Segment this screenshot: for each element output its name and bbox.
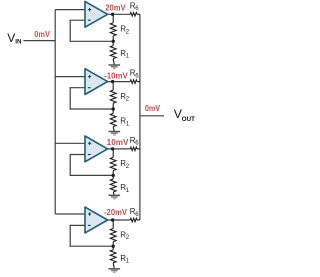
op-amp U2 <box>85 69 108 95</box>
node output of U3 <box>111 147 114 150</box>
input net VIN: left bus <box>54 10 56 214</box>
resistor R6 (stage 4 summing resistor) <box>130 218 140 222</box>
wire output of U1 <box>108 13 131 15</box>
label R2 (stage 2) <box>120 92 130 103</box>
label R6 (stage 1) <box>130 1 140 12</box>
resistor R6 (stage 2 summing resistor) <box>130 80 140 84</box>
resistor R2 (stage 3) <box>110 149 116 176</box>
value label -10mV <box>104 72 128 81</box>
svg-text:1: 1 <box>126 121 130 127</box>
resistor R2 (stage 4) <box>110 220 116 246</box>
svg-text:OUT: OUT <box>182 116 195 123</box>
label VIN <box>7 31 22 46</box>
ground (stage 3) <box>109 195 121 198</box>
svg-text:V: V <box>7 31 15 45</box>
node R1/R2 junction (stage 2) <box>112 107 115 110</box>
ground (stage 2) <box>109 132 121 135</box>
value label 10mV <box>107 138 129 147</box>
value label 0mV at output <box>145 104 161 113</box>
svg-text:0mV: 0mV <box>145 104 161 113</box>
wire output of U3 <box>108 148 131 150</box>
svg-text:-20mV: -20mV <box>104 208 128 217</box>
wire VIN to left bus <box>24 40 56 42</box>
node R1/R2 junction (stage 1) <box>112 40 115 43</box>
node R1/R2 junction (stage 3) <box>112 174 115 177</box>
label R6 (stage 2) <box>130 69 140 80</box>
svg-text:6: 6 <box>135 141 139 147</box>
op-amp U1 <box>85 1 108 27</box>
wire bus to + input of op-amp U3 <box>55 142 85 144</box>
svg-text:2: 2 <box>126 97 130 103</box>
svg-text:2: 2 <box>126 235 130 241</box>
resistor R1 (stage 2) <box>110 109 116 132</box>
wire bus to + input of op-amp U2 <box>55 76 85 78</box>
label R1 (stage 2) <box>120 117 130 128</box>
resistor R6 (stage 3 summing resistor) <box>130 147 140 151</box>
svg-text:1: 1 <box>126 54 130 60</box>
svg-text:6: 6 <box>135 73 139 79</box>
wire output of U2 <box>108 81 131 83</box>
node output of U4 <box>111 218 114 221</box>
label R6 (stage 4) <box>130 207 140 218</box>
resistor R1 (stage 1) <box>110 41 116 65</box>
resistor R6 (stage 1 summing resistor) <box>130 13 140 17</box>
value label 20mV <box>105 3 126 12</box>
resistor R2 (stage 2) <box>110 82 116 109</box>
output net: right bus <box>139 14 141 220</box>
svg-text:IN: IN <box>15 39 22 46</box>
label VOUT <box>174 107 195 123</box>
svg-text:0mV: 0mV <box>34 30 50 39</box>
label R1 (stage 1) <box>120 49 130 60</box>
svg-text:6: 6 <box>135 6 139 12</box>
op-amp U3 <box>85 136 108 162</box>
label R6 (stage 3) <box>130 136 140 147</box>
label R2 (stage 3) <box>120 159 130 170</box>
label R2 (stage 1) <box>120 25 130 36</box>
feedback wire from - input of U2 to R1/R2 junction <box>70 88 113 109</box>
resistor R1 (stage 3) <box>110 175 116 195</box>
svg-text:6: 6 <box>135 212 139 218</box>
svg-text:2: 2 <box>126 164 130 170</box>
svg-text:1: 1 <box>126 188 130 194</box>
svg-text:20mV: 20mV <box>105 3 126 12</box>
svg-text:10mV: 10mV <box>107 138 129 147</box>
feedback wire from - input of U3 to R1/R2 junction <box>70 155 113 176</box>
label R1 (stage 4) <box>120 254 130 265</box>
value label 0mV at input <box>34 30 50 39</box>
node output of U2 <box>111 80 114 83</box>
resistor R1 (stage 4) <box>110 246 116 269</box>
ground (stage 1) <box>109 65 121 68</box>
svg-text:2: 2 <box>126 29 130 35</box>
label R1 (stage 3) <box>120 183 130 194</box>
wire bus to + input of op-amp U1 <box>55 9 85 11</box>
label R2 (stage 4) <box>120 230 130 241</box>
ground (stage 4) <box>109 269 121 272</box>
feedback wire from - input of U4 to R1/R2 junction <box>70 225 113 246</box>
wire bus to + input of op-amp U4 <box>55 213 85 215</box>
svg-text:1: 1 <box>126 259 130 265</box>
resistor R2 (stage 1) <box>110 14 116 41</box>
wire output of U4 <box>108 219 131 221</box>
value label -20mV <box>104 208 128 217</box>
node R1/R2 junction (stage 4) <box>112 245 115 248</box>
svg-text:-10mV: -10mV <box>104 72 128 81</box>
op-amp U4 <box>85 207 108 233</box>
node output of U1 <box>111 13 114 16</box>
wire output bus to VOUT <box>140 115 164 117</box>
feedback wire from - input of U1 to R1/R2 junction <box>70 20 113 41</box>
